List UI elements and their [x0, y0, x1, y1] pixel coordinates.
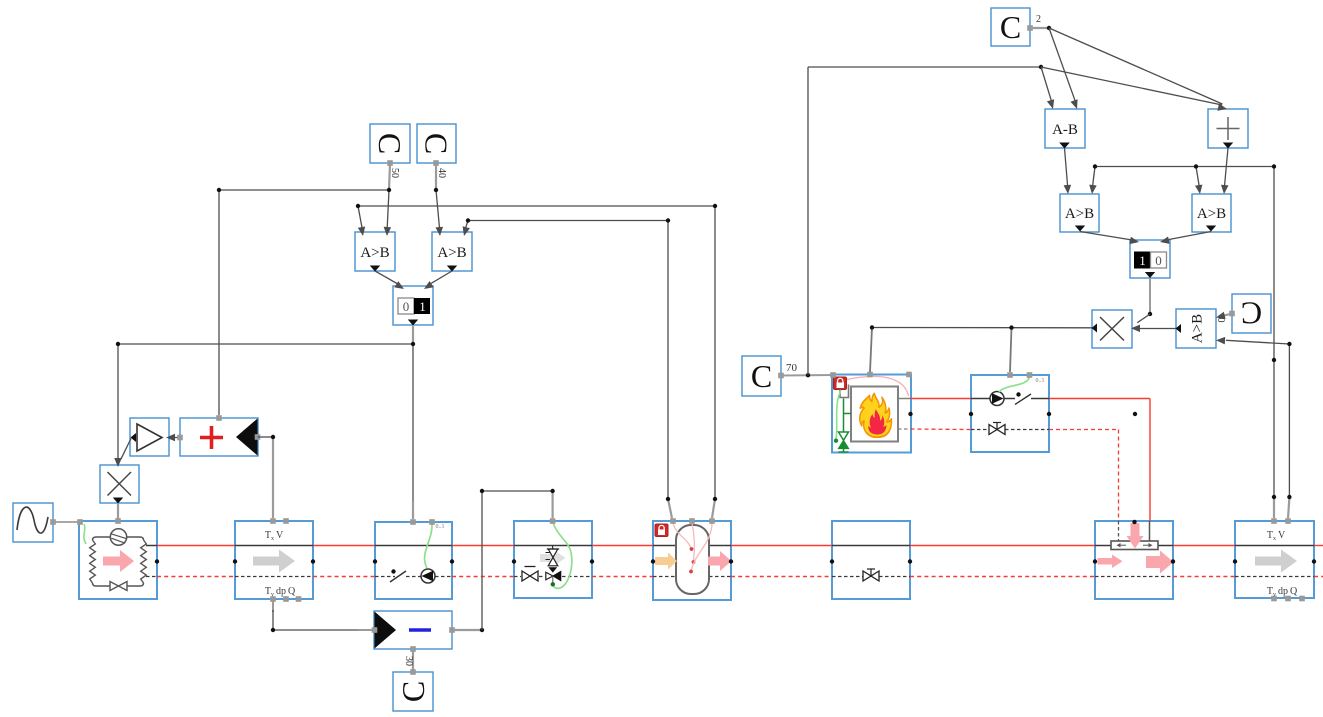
node dot X2 net corner: [870, 325, 874, 329]
node dot y166 b: [1194, 164, 1198, 168]
mixing valve block MIX1: [514, 521, 592, 598]
multiplier X2: [1092, 310, 1132, 348]
HP1 left coil zigzag: [90, 540, 96, 583]
constant block C50 (setpoint 50): [370, 124, 410, 163]
PUMP1 green control wire: [425, 523, 433, 568]
TEE1 inlet vertical dashed: [1118, 521, 1120, 541]
HP1 green squiggle: [84, 524, 86, 544]
comparator A>B U1: [355, 232, 395, 271]
svg-text:2: 2: [1036, 14, 1041, 25]
wire PIPE2 x1288 up: [1288, 498, 1289, 518]
wire tank sensor right: horizontal y206: [358, 205, 715, 207]
wire MINUS1 to C30: [412, 649, 414, 672]
TANK1 pink outlet arrow: [708, 551, 732, 571]
node dot C40 wire: [434, 188, 438, 192]
connector squares BOIL1 top: [830, 372, 836, 378]
HP1 supply stub: [146, 545, 157, 547]
node dot C70: [806, 373, 810, 377]
BOIL1 red lock icon: [834, 377, 847, 390]
gain block G1: [130, 418, 169, 456]
connector squares PIPE2 bottom: [1271, 596, 1277, 602]
constant block C2: [991, 8, 1030, 46]
svg-text:C: C: [372, 133, 408, 154]
svg-text:1: 1: [419, 299, 426, 314]
TEE1 inlet vertical line: [1149, 521, 1151, 541]
svg-text:70: 70: [786, 362, 798, 374]
connector square C30 top: [410, 669, 416, 675]
comparator A>B U3: [1060, 194, 1099, 232]
BOIL1 green check valve: [839, 432, 849, 440]
wire net C50 down to PLUS1 top: [218, 190, 220, 415]
connector squares PUMP1 top: [410, 519, 416, 525]
svg-text:0..1: 0..1: [1036, 378, 1045, 384]
svg-text:C: C: [395, 681, 431, 702]
HP1 pink arrow: [103, 550, 134, 572]
PIPE2 return line: [1235, 576, 1314, 578]
pump block PUMP1: [375, 522, 452, 599]
node dot minus net corner2: [550, 489, 554, 493]
output marker A>B U1: [370, 266, 380, 272]
constant block C0: [1232, 294, 1271, 333]
node dot y220 left: [466, 218, 470, 222]
wire PIPE2 net horizontal y166: [1095, 166, 1274, 168]
svg-text:A>B: A>B: [360, 245, 389, 261]
wire y206 vertical down to tank: [714, 206, 716, 499]
node dot y67: [1039, 65, 1043, 69]
wire MINUS1 net up: [481, 491, 483, 630]
wire y166 to A>B U3 right: [1093, 167, 1095, 187]
wire C0 to A>B U5 top input: [1219, 314, 1232, 317]
svg-text:0: 0: [1155, 253, 1162, 268]
node dot y344 left corner: [116, 342, 120, 346]
node dot y166 a: [1093, 164, 1097, 168]
wire C50 output to junction: [389, 163, 390, 190]
VALVE1 bowtie valve: [863, 571, 871, 581]
MIX1 left bowtie valve: [522, 571, 530, 581]
node dot tank wire left: [666, 497, 670, 501]
constant block C30: [393, 672, 433, 711]
svg-text:50: 50: [389, 168, 400, 178]
TANK1 sensor curve 2: [692, 523, 694, 561]
TANK1 sensor dot 1: [690, 547, 694, 551]
boiler loop supply pipe: [911, 398, 972, 400]
node dot X2 net branch: [1009, 325, 1013, 329]
connector square PLUS1 top: [216, 415, 222, 421]
TANK1 sensor curve 1: [673, 523, 691, 548]
HP1 coil bottom lines: [93, 583, 144, 586]
wire y166 down to PIPE2 top: [1273, 167, 1275, 499]
node dot PUMP2 right edge: [1047, 412, 1051, 416]
wire tank sensor left: horizontal y220: [468, 220, 668, 222]
MINUS1 black arrow: [375, 612, 397, 649]
BOIL1 firebox: [851, 387, 898, 442]
BOIL1 green node dot: [834, 439, 838, 443]
pipe block PIPE1: [235, 521, 313, 599]
TEE1 small pink right arrow: [1098, 555, 1123, 569]
constant block C70 (boiler setpoint): [742, 356, 781, 396]
PUMP2 supply line: [971, 398, 990, 400]
node dot corner x219: [217, 188, 221, 192]
wire X2 output to boiler net: [872, 327, 1092, 329]
output marker X2 left: [1092, 324, 1098, 333]
svg-text:30: 30: [403, 656, 414, 666]
constant block C40 (setpoint 40): [417, 124, 456, 163]
PLUS1 black arrow: [236, 419, 258, 456]
subtractor block MINUS1: [374, 611, 452, 649]
HP1 coil top lines: [93, 537, 144, 540]
wire PLUS1 to G1 input: [171, 437, 180, 439]
TANK1 red lock icon: [655, 524, 668, 537]
svg-text:A>B: A>B: [1190, 314, 1206, 343]
wire net C50 horizontal to x219: [219, 189, 389, 191]
svg-text:Ty dp Q: Ty dp Q: [265, 586, 296, 598]
wire A>B U2 to S1: [430, 271, 452, 284]
svg-text:C: C: [751, 358, 772, 394]
wire X1 to HP top: [117, 503, 119, 519]
node dot S2 net: [1148, 312, 1152, 316]
TEE1 pink down arrow: [1127, 523, 1144, 549]
svg-text:A-B: A-B: [1052, 122, 1078, 138]
storage tank block TANK1: [653, 521, 731, 600]
wire A>B U4 to S2: [1167, 232, 1211, 240]
svg-text:40: 40: [436, 168, 447, 178]
node dot y220 corner: [666, 218, 670, 222]
tee piece block TEE1: [1095, 521, 1173, 599]
connector squares PIPE2 top: [1271, 518, 1277, 524]
PUMP1 pump circle: [421, 569, 435, 583]
multiplier X1: [100, 465, 139, 503]
wire C2 to A-B right input: [1049, 28, 1075, 101]
BOIL1 small box under lock: [840, 385, 849, 398]
HP1 right coil zigzag: [141, 540, 147, 583]
output marker A>B U2: [447, 266, 457, 272]
svg-text:A>B: A>B: [1197, 206, 1226, 222]
MIX1 vertical valve stub: [552, 546, 554, 549]
node dot S1 net: [411, 342, 415, 346]
TEE1 fitting rectangle: [1111, 541, 1158, 550]
boiler loop return pipe (dashed): [911, 428, 972, 431]
connector squares PIPE1 top: [270, 518, 276, 524]
svg-text:A>B: A>B: [1065, 206, 1094, 222]
wire MINUS1 net down to MIX1: [551, 491, 553, 518]
node dot C2: [1047, 26, 1051, 30]
output marker A>B U4: [1206, 226, 1216, 232]
wire y344 down to X1 input: [117, 344, 119, 462]
switch block 0/1 S1: [393, 286, 433, 325]
node dot minus net corner1: [480, 489, 484, 493]
node dot BOIL1 right edge: [908, 412, 912, 416]
MIX1 return line: [514, 576, 521, 578]
node dot x1274 low: [1272, 495, 1276, 499]
MIX1 gray arrow watermark: [540, 550, 566, 566]
pump block PUMP2: [971, 375, 1049, 452]
connector square MINUS1 left: [372, 627, 378, 633]
wire C70 net up: [807, 67, 809, 375]
adder block PLUS1: [180, 418, 258, 456]
BOIL1 supply stub: [898, 398, 911, 400]
node dot y166 corner: [1272, 164, 1276, 168]
PLUS2 icon plus: [1227, 117, 1229, 140]
wire y220 down to A>B U2 right input: [466, 221, 469, 229]
BOIL1 green wire straight: [843, 399, 845, 432]
MIX1 green control loop: [553, 522, 572, 589]
wire PLUS2 to A>B U4 right: [1225, 148, 1229, 186]
MINUS1 blue minus icon: [409, 628, 431, 632]
node dot floating near tee riser: [1133, 412, 1137, 416]
wire net S1 horizontal y344: [118, 343, 413, 345]
switch block 1/0 S2: [1130, 240, 1170, 278]
MIX1 green end dot: [551, 582, 555, 586]
output marker X1: [113, 498, 123, 504]
PIPE1 return line: [235, 576, 313, 578]
wire PLUS1 output right then down to PIPE1: [258, 436, 274, 438]
connector square HP left: [77, 519, 83, 525]
TEE1 big pink right arrow: [1146, 551, 1174, 574]
output marker S2: [1145, 272, 1155, 278]
BOIL1 return stub: [898, 428, 911, 430]
PUMP1 supply line: [375, 545, 452, 547]
wire y344 down to PUMP1 top: [412, 344, 414, 502]
PUMP2 return line: [971, 429, 989, 431]
comparator A>B U2: [432, 232, 472, 271]
connector squares TANK1 top: [670, 518, 676, 524]
subtract block A-B: [1045, 109, 1085, 148]
BOIL1 flame outer: [860, 393, 892, 437]
svg-text:Tx V: Tx V: [265, 530, 284, 542]
wire MINUS1 out right: [452, 629, 482, 631]
red supply pipe segments y=545: [157, 545, 235, 547]
PUMP1 return line: [375, 576, 395, 578]
PIPE2 supply line: [1235, 545, 1314, 547]
node dot TEE1 top: [1132, 520, 1136, 524]
pipe node dots on block edges: [155, 559, 159, 563]
adder block PLUS2: [1208, 109, 1248, 148]
PLUS1 red plus icon: [200, 436, 223, 440]
TANK1 orange inlet arrow: [655, 553, 677, 570]
sine wave input block W1: [13, 503, 53, 542]
TANK1 return line stubs: [653, 576, 676, 578]
red return pipe segments y=576 (dashed): [157, 576, 235, 578]
connector squares PUMP2 top: [1007, 372, 1013, 378]
output marker PLUS2: [1223, 143, 1233, 149]
output marker A-B: [1059, 143, 1070, 149]
PUMP2 switch contact: [1015, 394, 1031, 405]
TANK1 sensor dot 2: [692, 560, 696, 564]
W1 sine icon: [17, 507, 48, 533]
PUMP1 switch contact: [390, 571, 406, 582]
BOIL1 pink control curve: [847, 376, 909, 396]
wire C2 to PLUS2 input: [1049, 28, 1222, 104]
wire y67 to A-B left input: [1041, 67, 1052, 101]
connector square W1 out: [50, 519, 56, 525]
wire C70 net horizontal y67: [808, 66, 1041, 68]
wire C40 to A>B U2 left input: [436, 190, 440, 228]
BOIL1 flame inner: [868, 409, 886, 434]
connector square C70 out: [778, 373, 784, 379]
PUMP2 green control wire: [999, 376, 1030, 392]
connector square MIX1 top: [550, 518, 556, 524]
svg-text:0: 0: [403, 299, 410, 314]
wire S2 down: [1149, 278, 1151, 314]
boiler block BOIL1: [832, 375, 911, 453]
BOIL1 green wire curvy: [836, 390, 841, 439]
VALVE1 return line: [832, 576, 863, 578]
svg-text:1: 1: [1139, 253, 1146, 268]
wire y166 to A>B U4 left: [1196, 167, 1199, 187]
svg-text:C: C: [1000, 9, 1021, 45]
PUMP2 bowtie valve: [989, 425, 997, 435]
TANK1 sensor dot 3: [689, 570, 693, 574]
svg-text:A>B: A>B: [437, 245, 466, 261]
wire A>B U3 to S2: [1080, 232, 1132, 241]
TANK1 tank capsule: [676, 525, 709, 594]
output marker A>B U3: [1075, 226, 1085, 232]
TEE1 return line: [1095, 576, 1173, 578]
VALVE1 supply line: [832, 545, 910, 547]
wire W1 to HP left: [53, 521, 80, 523]
svg-text:0..1: 0..1: [436, 524, 445, 530]
HP1 return stub: [146, 576, 157, 578]
wire A>B U5 to X2: [1136, 328, 1176, 330]
output marker S1: [408, 320, 418, 326]
connector square PLUS1 right: [255, 434, 261, 440]
output marker G1 left: [131, 433, 137, 442]
wire C2 output: [1030, 27, 1049, 29]
wire MINUS1 net across: [482, 490, 553, 492]
connector square MINUS1 right: [449, 627, 455, 633]
HP1 compressor circle: [110, 529, 126, 545]
node dot y206 corner: [713, 204, 717, 208]
node dot C50 junction: [387, 188, 391, 192]
wire y206 down to A>B U1 left input: [358, 206, 362, 228]
connector square HP top: [115, 518, 121, 524]
svg-text:C: C: [419, 133, 455, 154]
pipe block PIPE2: [1235, 521, 1314, 598]
wire A>B U1 to S1: [375, 271, 398, 284]
connector squares PIPE1 bottom: [270, 596, 276, 602]
svg-text:0: 0: [1215, 318, 1226, 323]
comparator A>B U4: [1192, 194, 1231, 232]
heat pump block HP1: [79, 521, 157, 599]
MIX1 vertical bowtie valve: [548, 549, 558, 557]
connector square MINUS1 bottom: [410, 646, 416, 652]
wire G1 output to X1 input: [121, 439, 131, 460]
PIPE1 supply line: [235, 545, 313, 547]
MIX1 supply line: [514, 545, 592, 547]
wire net down to BOIL1 top: [870, 328, 872, 373]
connector square C0 out: [1229, 311, 1235, 317]
TANK1 sensor curve 3: [692, 523, 713, 570]
node dot MINUS1 out: [480, 628, 484, 632]
svg-text:Tx V: Tx V: [1267, 530, 1286, 542]
TANK1 supply line stubs: [653, 545, 676, 547]
PIPE2 gray arrow: [1255, 550, 1297, 573]
wire y220 vertical down to tank: [667, 221, 669, 500]
wire S2 to X2 right input: [1137, 314, 1150, 323]
wire A-B to A>B U3 left: [1065, 148, 1068, 186]
MIX1 three-way valve: [548, 567, 557, 572]
G1 triangle icon: [137, 424, 162, 451]
node dot PLUS1 out corner: [271, 435, 275, 439]
rotated comparator A>B U5: [1176, 309, 1216, 348]
wire junction to A>B U1 right input: [387, 190, 389, 228]
connector square C2 out: [1027, 25, 1033, 31]
svg-text:C: C: [1241, 296, 1262, 332]
wire S1 output down: [412, 325, 414, 344]
valve block VALVE1: [832, 521, 910, 599]
TEE1 supply stubs: [1095, 545, 1111, 547]
node dot y206 left: [356, 204, 360, 208]
node dot PIPE1-MINUS corner: [271, 628, 275, 632]
wire y67 to PLUS2 input: [1041, 67, 1222, 105]
connector square PLUS1 left: [177, 435, 183, 441]
node dot x1274 mid: [1272, 358, 1276, 362]
node dot x1289 low: [1287, 495, 1291, 499]
wire C70 to boiler: [781, 374, 833, 377]
S1 icon 0|1: [398, 298, 414, 314]
PIPE1 gray arrow: [253, 550, 295, 573]
output marker A>B U5 left: [1176, 324, 1182, 333]
node dot x1289 top: [1287, 342, 1291, 346]
X2 cross icon: [1100, 317, 1124, 341]
TEE1 fitting arrows: [1119, 544, 1126, 546]
PUMP2 pump circle: [990, 392, 1004, 406]
wire C40 output down: [435, 163, 437, 190]
HP1 expansion valve bowtie: [110, 582, 119, 591]
node dot tank wire right: [713, 497, 717, 501]
wire x1289 to A>B U5 bottom input: [1226, 340, 1289, 344]
wire PIPE1 bottom to MINUS1: [272, 599, 274, 612]
connector squares C50 C40 outputs: [387, 160, 393, 166]
S2 icon 1|0: [1135, 252, 1151, 268]
node dot PUMP2 left edge: [969, 412, 973, 416]
wire net down to PUMP2 top: [1010, 328, 1012, 372]
X1 cross icon: [108, 472, 132, 496]
